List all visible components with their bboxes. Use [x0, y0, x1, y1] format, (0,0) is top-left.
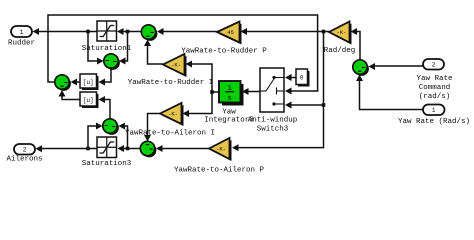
wire: sum S5 output into Saturation3 east — [118, 145, 141, 152]
svg-text:-K-: -K- — [168, 111, 178, 118]
junction integrator output split — [210, 90, 214, 94]
label YawRate-to-Rudder I — [128, 79, 214, 87]
svg-text:Saturation3: Saturation3 — [82, 160, 132, 168]
wire: branch down from rudder wire into sum S2 west — [88, 32, 104, 65]
svg-text:Rudder: Rudder — [8, 40, 35, 48]
svg-text:45: 45 — [227, 29, 234, 36]
svg-text:Rad/deg: Rad/deg — [324, 47, 356, 55]
svg-text:(rad/s): (rad/s) — [419, 93, 451, 101]
sum S4 (pre/post saturation difference, aileron) — [103, 119, 119, 135]
integrator block Yaw Integrator3 — [219, 81, 244, 106]
output port 2 Ailerons — [14, 144, 35, 155]
label YawRate-to-Rudder P — [181, 48, 267, 56]
gain Rad/deg — [329, 22, 352, 45]
wire: branch down into sum S2 east — [119, 32, 128, 65]
svg-text:0: 0 — [300, 75, 304, 82]
svg-text:1: 1 — [432, 107, 436, 114]
label Saturation1 — [82, 45, 132, 53]
svg-text:Ailerons: Ailerons — [6, 156, 42, 164]
saturation block Saturation1 — [97, 21, 117, 41]
svg-text:s: s — [228, 95, 232, 103]
wire: Rad/deg output to gain YawRate-to-Rudder P east — [241, 28, 330, 35]
svg-text:-K-: -K- — [216, 146, 226, 153]
label Rad/deg — [324, 47, 356, 55]
svg-text:2: 2 — [432, 62, 436, 69]
switch block Anti-windup Switch3 — [260, 68, 284, 112]
wire: branch up into sum S4 east — [119, 123, 128, 149]
label Saturation3 — [82, 160, 132, 168]
wire: gain YawRate-to-Rudder I output up into sum S1 south — [144, 40, 163, 65]
wire: sum S2 output down and left into Fcn [u]1 east — [99, 69, 112, 86]
label YawRate-to-Aileron P — [174, 167, 265, 175]
svg-text:Command: Command — [419, 84, 451, 92]
wire: Switch3 output into Yaw Integrator3 east — [242, 88, 260, 95]
svg-text:[u]: [u] — [83, 79, 94, 86]
wire: branch from P wire down to Switch3 bottom input and to gain YawRate-to-Aileron P — [232, 32, 324, 152]
svg-text:Integrator3: Integrator3 — [204, 117, 254, 125]
svg-text:YawRate-to-Rudder I: YawRate-to-Rudder I — [128, 79, 214, 87]
label Yaw Integrator3 — [204, 109, 254, 125]
wire: integrator output west to junction — [212, 91, 219, 93]
svg-text:1: 1 — [20, 29, 24, 36]
sum S3 (windup detector sum) — [55, 75, 71, 91]
junction on S5-Saturation3 wire branch to sum S4 — [126, 147, 130, 151]
wire: input port 1 to sum S6 south — [356, 75, 423, 110]
label Rudder — [8, 40, 35, 48]
sum S5 (aileron P+I sum) — [140, 141, 156, 157]
label YawRate-to-Aileron I — [125, 130, 215, 138]
wire: input port 2 to sum S6 east — [369, 63, 424, 70]
Fcn block [u]1 — [80, 74, 99, 90]
input port 2 Yaw Rate Command — [423, 59, 444, 70]
svg-text:YawRate-to-Rudder P: YawRate-to-Rudder P — [181, 48, 267, 56]
svg-text:Yaw Rate (Rad/s): Yaw Rate (Rad/s) — [398, 118, 470, 126]
input port 1 Yaw Rate — [423, 105, 445, 116]
gain YawRate-to-Rudder P — [217, 22, 242, 45]
wire: branch up into sum S4 west — [88, 123, 103, 149]
output port 1 Rudder — [11, 26, 32, 37]
wire: gain YawRate-to-Rudder P output into sum S1 east — [157, 28, 217, 35]
wire: gain YawRate-to-Aileron I output down into sum S5 north — [144, 114, 160, 142]
svg-text:-K-: -K- — [337, 29, 347, 36]
wire: constant 0 into Switch3 top input — [285, 74, 296, 81]
wire: [u]1 output into sum S3 east — [71, 79, 81, 86]
svg-text:-K-: -K- — [171, 62, 181, 69]
junction on aileron wire branch to sum S4 — [86, 147, 90, 151]
sum S2 (pre/post saturation difference, rudder) — [104, 54, 120, 70]
svg-text:Anti-windup: Anti-windup — [248, 117, 298, 125]
svg-text:[u]: [u] — [83, 97, 94, 104]
wire: sum S4 output up and left into Fcn [u]2 east — [99, 96, 111, 119]
saturation block Saturation3 — [97, 137, 117, 158]
sum S6 (yaw rate error) — [353, 60, 369, 76]
label Yaw Rate Command (rad/s) — [416, 75, 452, 101]
svg-text:Saturation1: Saturation1 — [82, 45, 132, 53]
svg-text:2: 2 — [23, 147, 27, 154]
constant block 0 — [296, 69, 310, 87]
wire: sum S1 output into Saturation1 east — [117, 28, 141, 35]
wire: up into gain YawRate-to-Rudder I east — [186, 61, 213, 93]
svg-text:Yaw: Yaw — [222, 109, 236, 117]
sum S1 (rudder P+I sum) — [141, 25, 157, 41]
wire: gain YawRate-to-Aileron P output into sum S5 east — [156, 145, 209, 152]
svg-text:YawRate-to-Aileron I: YawRate-to-Aileron I — [125, 130, 215, 138]
gain YawRate-to-Aileron I — [160, 103, 184, 126]
svg-text:Yaw Rate: Yaw Rate — [416, 75, 452, 83]
wire: sum S6 output up into Rad/deg east — [351, 28, 361, 60]
svg-text:YawRate-to-Aileron P: YawRate-to-Aileron P — [174, 167, 265, 175]
label Yaw Rate (Rad/s) — [398, 118, 470, 126]
junction on S1-Saturation1 wire branch to sum S2 — [126, 30, 130, 34]
label Ailerons — [6, 156, 42, 164]
svg-text:Switch3: Switch3 — [257, 126, 289, 134]
label Anti-windup Switch3 — [248, 117, 298, 134]
gain YawRate-to-Rudder I — [163, 54, 187, 77]
wire: Saturation3 output to Ailerons port — [36, 145, 98, 152]
wire: down into gain YawRate-to-Aileron I east — [183, 92, 213, 117]
gain YawRate-to-Aileron P — [209, 138, 232, 161]
Fcn block [u]2 — [80, 92, 99, 108]
wire: sum S3 output west, up, over the top, down into Switch3 control input — [48, 15, 318, 95]
wire: [u]2 output left and up into sum S3 south — [59, 90, 81, 100]
junction branch into Switch3 bottom input — [322, 103, 326, 107]
junction on rudder wire branch to sum S2 — [86, 30, 90, 34]
junction on P wire branch down (anti-windup data) — [322, 30, 326, 34]
wire: Saturation1 output to Rudder port — [33, 28, 98, 35]
